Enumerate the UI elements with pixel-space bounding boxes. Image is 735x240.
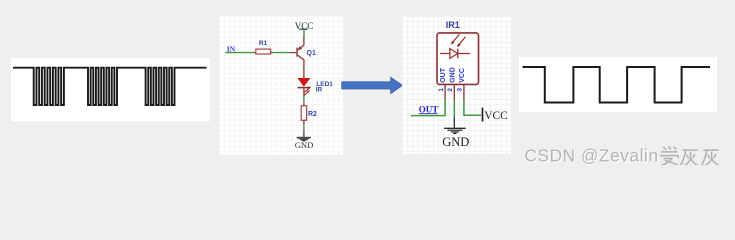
svg-text:3: 3: [456, 87, 463, 91]
svg-text:Q1: Q1: [307, 50, 316, 57]
svg-text:R1: R1: [259, 39, 268, 46]
svg-text:IR: IR: [316, 86, 323, 93]
svg-text:OUT: OUT: [440, 67, 447, 83]
svg-text:VCC: VCC: [458, 68, 465, 83]
svg-text:R2: R2: [308, 111, 317, 118]
svg-text:GND: GND: [442, 134, 469, 148]
svg-text:GND: GND: [295, 140, 314, 150]
svg-text:VCC: VCC: [484, 109, 508, 121]
svg-text:IR1: IR1: [445, 20, 459, 30]
svg-text:IN: IN: [227, 44, 236, 53]
svg-text:1: 1: [437, 87, 444, 91]
svg-text:GND: GND: [449, 67, 456, 83]
svg-text:2: 2: [447, 87, 454, 91]
svg-text:OUT: OUT: [418, 104, 438, 114]
